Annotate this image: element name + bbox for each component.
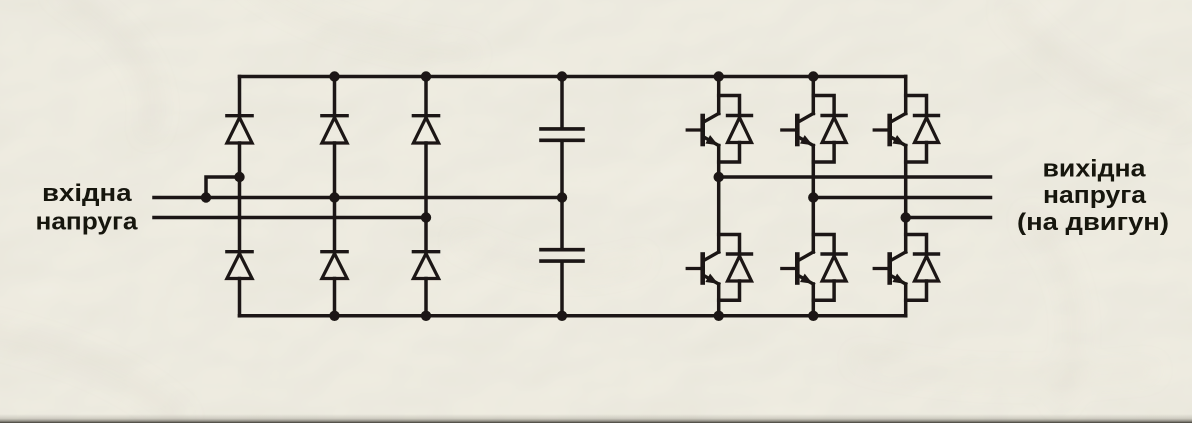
- wire inverter leg 1: [717, 77, 721, 114]
- diode D2: [227, 250, 252, 253]
- node bottom bus / leg 2: [329, 311, 339, 321]
- diode D10: [822, 252, 846, 255]
- node DC link midpoint: [557, 192, 567, 202]
- transistor Q3: [795, 116, 800, 144]
- node top bus / inverter leg 1: [714, 71, 724, 81]
- wire input phase B: [154, 216, 426, 220]
- wire freewheel branch bottom leg 1: [719, 235, 740, 255]
- wire output phase U: [719, 175, 991, 179]
- diode D8: [728, 252, 752, 255]
- node bottom bus / inverter leg 2: [808, 311, 818, 321]
- node top bus / inverter leg 2: [808, 71, 818, 81]
- wire rectifier leg 2: [333, 77, 337, 116]
- capacitor C2: [541, 248, 583, 252]
- node top bus / leg 3: [421, 71, 431, 81]
- node leg 3 mid: [421, 212, 431, 222]
- diode D4: [322, 250, 347, 253]
- svg-text:вихідна: вихідна: [1043, 155, 1147, 182]
- diode D1: [227, 114, 252, 117]
- svg-text:напруга: напруга: [36, 208, 139, 235]
- node inverter leg 3 out: [901, 212, 911, 222]
- wire freewheel branch top leg 2: [813, 96, 834, 116]
- transistor Q6: [887, 255, 892, 283]
- wire inverter leg 2: [812, 77, 816, 114]
- wire freewheel branch bottom leg 3: [906, 235, 927, 255]
- wire freewheel branch bottom leg 2: [813, 235, 834, 255]
- wire freewheel branch top leg 1: [719, 96, 740, 116]
- node bottom bus / DC link: [557, 311, 567, 321]
- svg-text:(на двигун): (на двигун): [1017, 209, 1169, 236]
- node leg 1 mid: [234, 172, 244, 182]
- wire bottom DC bus: [240, 314, 906, 318]
- node inverter leg 2 out: [808, 192, 818, 202]
- svg-text:вхідна: вхідна: [42, 180, 132, 207]
- node bottom bus / leg 3: [421, 311, 431, 321]
- transistor Q2: [700, 255, 705, 283]
- node leg 2 mid: [329, 192, 339, 202]
- wire output phase V: [813, 196, 990, 200]
- node phase A jog: [201, 192, 211, 202]
- capacitor C1: [541, 127, 583, 131]
- wire rectifier leg 3: [424, 77, 428, 116]
- transistor Q4: [795, 255, 800, 283]
- svg-text:напруга: напруга: [1043, 182, 1147, 209]
- wire input phase A: [154, 196, 562, 200]
- diode D11: [915, 114, 939, 117]
- diode D12: [915, 252, 939, 255]
- wire output phase W: [906, 216, 991, 220]
- diode D5: [413, 114, 438, 117]
- diode D6: [413, 250, 438, 253]
- diode D7: [728, 114, 752, 117]
- node inverter leg 1 out: [714, 172, 724, 182]
- transistor Q1: [700, 116, 705, 144]
- node bottom bus / inverter leg 1: [714, 311, 724, 321]
- wire top DC bus: [240, 75, 906, 79]
- wire rectifier leg 1: [238, 77, 242, 116]
- transistor Q5: [887, 116, 892, 144]
- wire DC link branch: [560, 77, 564, 128]
- node top bus / DC link: [557, 71, 567, 81]
- node top bus / leg 2: [329, 71, 339, 81]
- diode D3: [322, 114, 347, 117]
- diode D9: [822, 114, 846, 117]
- wire phase A jog to leg 1: [206, 177, 240, 198]
- wire freewheel branch top leg 3: [906, 96, 927, 116]
- wire inverter leg 3: [904, 77, 908, 114]
